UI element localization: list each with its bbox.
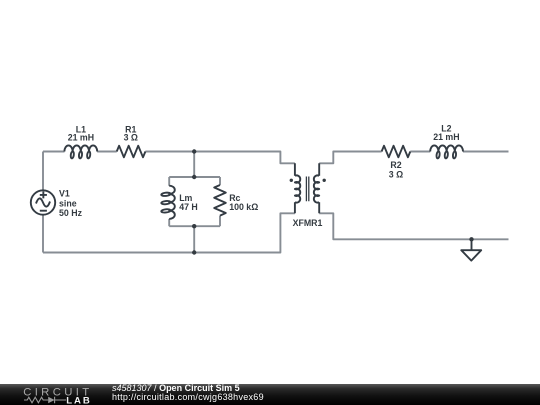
wire between R2 and L2 (410, 151, 430, 153)
wire Rc bottom lead (219, 216, 221, 227)
wire R1 to transformer left corner (145, 152, 295, 164)
svg-text:sine: sine (59, 198, 77, 208)
V1 sine wave (36, 198, 50, 206)
V1 minus sign (40, 210, 47, 212)
wire Rc top lead (219, 177, 221, 185)
wire Lm top lead (168, 177, 170, 186)
svg-text:LAB: LAB (66, 396, 91, 405)
wire transformer secondary top to R2 (319, 152, 381, 164)
wire transformer secondary bottom rail (319, 213, 508, 239)
resistor R1 zigzag (117, 146, 146, 158)
transformer XFMR1 primary winding (295, 175, 300, 202)
wire inner bottom rail (169, 225, 220, 227)
junction node ground (469, 237, 473, 241)
svg-text:XFMR1: XFMR1 (293, 218, 323, 228)
voltage source V1 circle (31, 190, 55, 214)
svg-text:R2: R2 (390, 160, 401, 170)
resistor R2 zigzag (382, 146, 411, 158)
transformer XFMR1 secondary winding (314, 175, 319, 202)
wire bottom rail (43, 213, 295, 252)
transformer primary phase dot (290, 179, 293, 182)
ground symbol triangle (461, 250, 481, 260)
junction node inner top (192, 175, 196, 179)
footer url text (112, 393, 264, 401)
junction node inner bottom (192, 224, 196, 228)
wire L2 to right open end (463, 151, 509, 153)
CircuitLab logo (0, 384, 110, 405)
svg-text:3 Ω: 3 Ω (389, 170, 403, 180)
svg-text:47 H: 47 H (179, 202, 198, 212)
wire between L1 and R1 (97, 151, 117, 153)
resistor Rc zigzag (214, 185, 226, 216)
svg-text:21 mH: 21 mH (433, 132, 459, 142)
svg-text:100 kΩ: 100 kΩ (229, 202, 258, 212)
logo diode (48, 397, 54, 403)
ground symbol stem (471, 239, 473, 250)
logo resistor squiggle (24, 397, 48, 403)
V1 plus sign (40, 191, 47, 198)
inductor Lm coil (161, 186, 175, 219)
transformer secondary phase dot (323, 179, 326, 182)
svg-text:50 Hz: 50 Hz (59, 208, 83, 218)
wire top rail left: V1 to L1 (43, 151, 65, 153)
junction node bottom rail (192, 250, 196, 254)
junction node top rail (192, 149, 196, 153)
svg-text:V1: V1 (59, 188, 70, 198)
wire inner top rail (169, 176, 220, 178)
svg-text:21 mH: 21 mH (68, 133, 94, 143)
inductor L2 coil (430, 145, 463, 158)
wire left vertical below V1 (42, 215, 44, 253)
footer black bar (0, 384, 540, 405)
transformer XFMR1 core lines (306, 177, 308, 202)
footer title text (112, 384, 240, 392)
svg-text:3 Ω: 3 Ω (124, 133, 138, 143)
wire middle drop to bottom rail (193, 226, 195, 252)
wire Lm bottom lead (168, 219, 170, 226)
wire left vertical above V1 (42, 152, 44, 191)
inductor L1 coil (64, 145, 97, 158)
wire middle drop from top rail (193, 152, 195, 178)
transformer XFMR1 primary leads (295, 163, 319, 213)
